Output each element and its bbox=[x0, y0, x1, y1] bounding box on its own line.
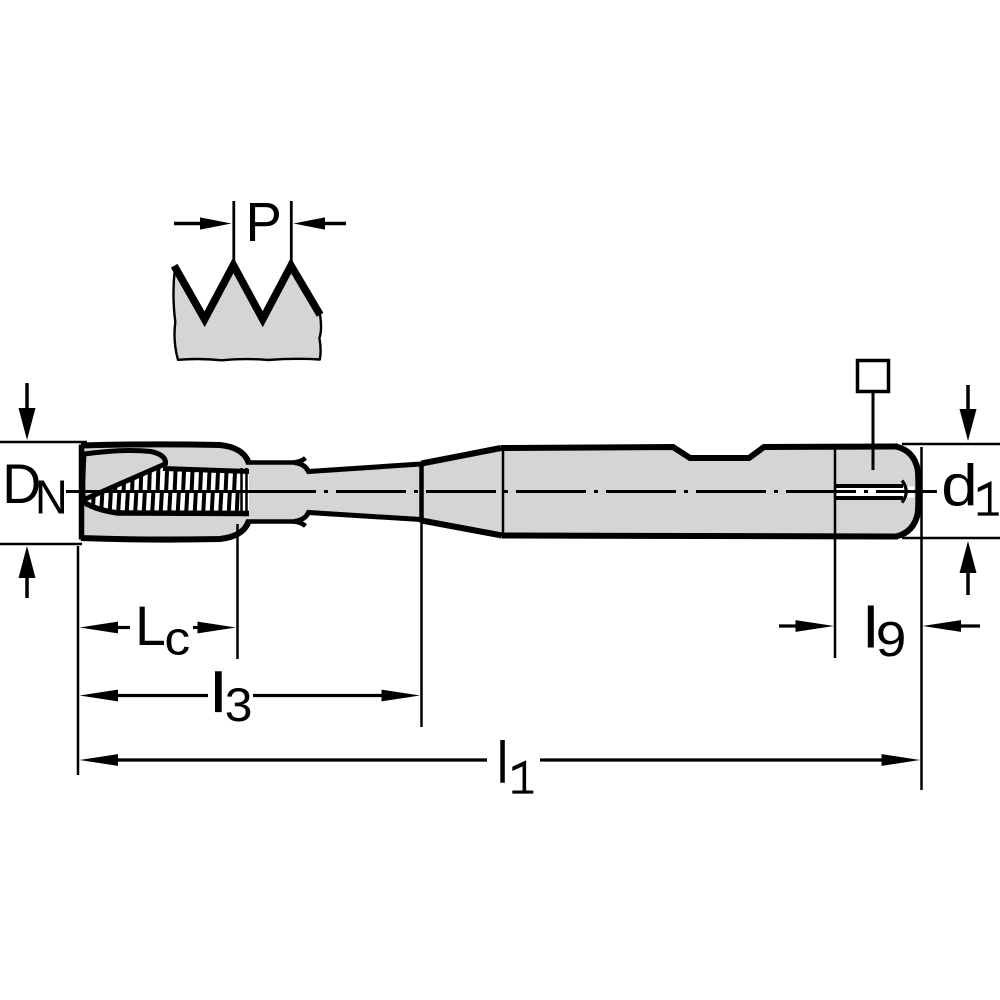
cone end thin line bbox=[502, 450, 505, 535]
thread profile blob (gray) bbox=[173, 266, 321, 360]
thread band bottom bbox=[82, 501, 249, 514]
leader line bbox=[872, 393, 875, 470]
d1 bottom extension line bbox=[902, 537, 1000, 540]
l9 dimension right outside arrow bbox=[958, 624, 980, 627]
head left edge bbox=[79, 445, 85, 540]
centerline bbox=[66, 490, 937, 493]
P extension line right bbox=[290, 201, 293, 262]
label 3 subscript of l3 bbox=[227, 688, 251, 721]
extension line x237 bbox=[236, 524, 239, 659]
extension line x835 bbox=[834, 537, 837, 658]
cone bottom edge bbox=[422, 521, 503, 536]
flute (spiral point) bbox=[83, 450, 166, 500]
label 9 subscript of l9 bbox=[878, 622, 904, 657]
extension line x78 bbox=[77, 546, 80, 775]
label N subscript of DN bbox=[39, 481, 64, 514]
DN bottom extension line bbox=[0, 543, 82, 546]
label l of l3 bbox=[215, 671, 222, 712]
P arrow left bbox=[174, 222, 206, 225]
label L of Lc bbox=[140, 607, 164, 645]
DN top extension line bbox=[0, 441, 87, 444]
shank end cap bbox=[896, 447, 918, 537]
extension line x421 bbox=[420, 522, 423, 727]
cone vertical line bbox=[419, 462, 424, 523]
thread band white bbox=[83, 464, 249, 514]
P extension line left bbox=[232, 201, 235, 262]
d1 down arrow bbox=[966, 385, 970, 413]
label P bbox=[250, 203, 279, 241]
tap body silhouette bbox=[81, 444, 918, 539]
label 1 subscript of l1 bbox=[512, 760, 533, 793]
thread end double line bbox=[240, 468, 243, 514]
thread profile zigzag (thick) bbox=[174, 265, 320, 319]
d1 up arrow bbox=[966, 572, 970, 595]
thread band mid line bbox=[84, 490, 249, 493]
label 1 subscript of d1 bbox=[978, 481, 999, 516]
head bottom edge bbox=[81, 522, 249, 540]
Lc dimension line bbox=[80, 622, 119, 634]
thread band top diagonal bbox=[82, 464, 165, 501]
neck bottom edge bbox=[294, 513, 421, 522]
square drive start line bbox=[834, 446, 837, 537]
l9 dimension left outside arrow bbox=[779, 624, 800, 627]
collar top edge with lip bbox=[246, 458, 306, 463]
shank top edge with notch bbox=[501, 447, 898, 459]
P arrow right bbox=[319, 222, 346, 225]
cone top edge bbox=[422, 448, 502, 464]
label D of DN bbox=[7, 465, 39, 503]
thread hatch bars upper row bbox=[90, 450, 236, 492]
head top edge bbox=[81, 444, 249, 462]
extension line x921 bbox=[920, 447, 923, 790]
thread hatch bars lower row bbox=[93, 492, 238, 517]
square drive slot bbox=[837, 487, 914, 498]
label d of d1 bbox=[944, 463, 973, 506]
label l of l9 bbox=[868, 606, 874, 648]
square symbol bbox=[858, 361, 889, 392]
DN down arrow bbox=[25, 383, 29, 412]
label c subscript of Lc bbox=[167, 629, 189, 655]
l1 dimension line bbox=[80, 754, 119, 766]
neck top edge bbox=[294, 463, 421, 472]
shank bottom edge bbox=[502, 536, 898, 537]
label l of l1 bbox=[500, 740, 505, 783]
l3 dimension line bbox=[80, 690, 119, 702]
d1 top extension line bbox=[902, 443, 1000, 446]
thread band top line bbox=[163, 469, 249, 472]
DN up arrow bbox=[25, 576, 29, 598]
collar bottom edge with lip bbox=[246, 522, 306, 527]
